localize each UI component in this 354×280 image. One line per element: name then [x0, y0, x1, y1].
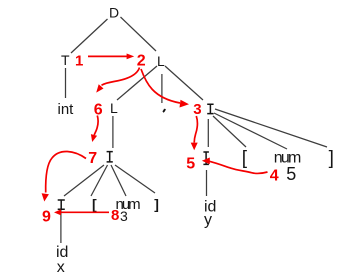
svg-text:L: L	[110, 100, 118, 116]
wire I left to num left	[111, 165, 126, 196]
wire I left to bracket open left	[91, 165, 108, 196]
wire I right top to I right child	[207, 119, 209, 147]
leaf comma	[163, 109, 165, 112]
svg-text:[: [	[242, 148, 248, 169]
svg-text:]: ]	[329, 148, 334, 169]
wire I right top to bracket close right	[215, 109, 327, 147]
node I left child	[58, 200, 65, 209]
svg-text:L: L	[157, 53, 165, 69]
red arrow 7 to 9	[42, 151, 86, 201]
svg-text:int: int	[58, 101, 75, 118]
svg-text:[: [	[92, 196, 97, 212]
svg-text:T: T	[61, 52, 70, 68]
svg-text:2: 2	[137, 53, 146, 70]
svg-text:3: 3	[193, 101, 201, 118]
red arrow 3 to 5	[191, 116, 198, 150]
svg-text:8: 8	[111, 207, 119, 224]
svg-text:9: 9	[42, 209, 51, 226]
wire I right child to id	[206, 170, 208, 196]
red arrow 2 to 6	[96, 68, 139, 93]
svg-text:D: D	[109, 5, 119, 21]
red arrow 2 to 3	[141, 69, 189, 108]
svg-text:1: 1	[75, 53, 83, 70]
wire T to int	[65, 68, 67, 98]
wire I left to I left child	[64, 165, 104, 196]
wire I right top to bracket open right	[213, 116, 246, 147]
red arrow 6 to 7	[91, 116, 98, 143]
wire L to comma	[161, 74, 163, 103]
node I right child	[203, 152, 209, 164]
svg-text:5: 5	[186, 156, 195, 173]
wire L mid to I left	[112, 116, 114, 148]
wire I left child to id	[60, 210, 62, 243]
svg-text:]: ]	[154, 196, 159, 212]
wire I left to bracket close left	[115, 165, 155, 193]
svg-text:y: y	[204, 212, 212, 229]
wire D to T	[71, 19, 108, 53]
node I left	[107, 152, 113, 162]
svg-text:4: 4	[270, 168, 279, 185]
red arrow 4 to 5 squiggle	[202, 158, 268, 174]
red arrow 8 to 9	[54, 209, 109, 215]
svg-text:x: x	[57, 259, 65, 276]
red arrow 1 to 2	[88, 54, 134, 60]
wire L to L child	[117, 66, 157, 100]
wire D to L	[121, 17, 157, 51]
svg-text:3: 3	[120, 208, 128, 224]
wire I right top to num right	[214, 113, 287, 149]
node I right top	[207, 104, 213, 113]
wire L to I right	[165, 66, 203, 100]
svg-text:5: 5	[286, 164, 296, 184]
svg-text:7: 7	[88, 150, 97, 167]
